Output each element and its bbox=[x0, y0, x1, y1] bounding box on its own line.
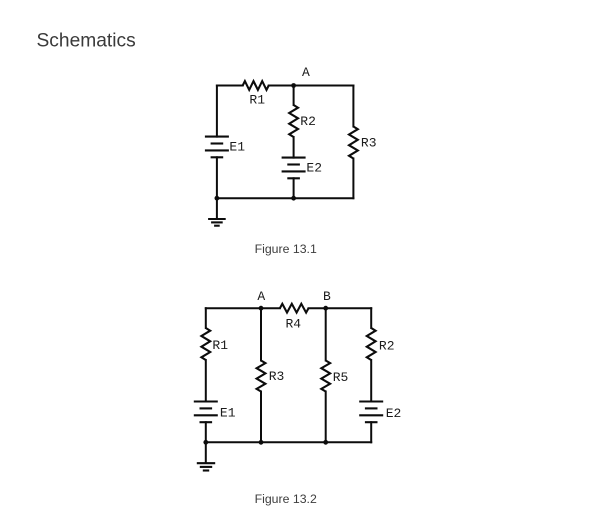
svg-text:R1: R1 bbox=[249, 93, 265, 108]
svg-text:R2: R2 bbox=[379, 339, 395, 354]
svg-text:A: A bbox=[302, 65, 310, 80]
svg-text:R2: R2 bbox=[300, 114, 316, 129]
svg-text:E2: E2 bbox=[306, 161, 322, 176]
svg-text:Schematics: Schematics bbox=[37, 31, 136, 52]
svg-text:Figure 13.1: Figure 13.1 bbox=[255, 242, 317, 256]
svg-text:B: B bbox=[323, 289, 331, 304]
svg-text:Figure 13.2: Figure 13.2 bbox=[255, 492, 317, 506]
svg-text:R1: R1 bbox=[212, 338, 228, 353]
svg-text:E2: E2 bbox=[386, 406, 402, 421]
svg-text:E1: E1 bbox=[229, 140, 245, 155]
svg-text:R5: R5 bbox=[333, 370, 349, 385]
svg-text:A: A bbox=[257, 289, 265, 304]
svg-text:R3: R3 bbox=[361, 136, 377, 151]
svg-text:R4: R4 bbox=[285, 317, 301, 332]
svg-text:E1: E1 bbox=[220, 405, 236, 420]
svg-text:R3: R3 bbox=[269, 369, 285, 384]
